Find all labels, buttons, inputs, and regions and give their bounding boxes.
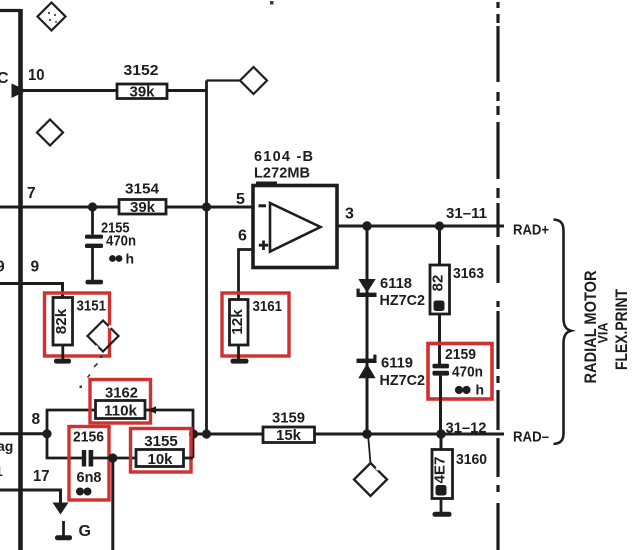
- svg-text:3163: 3163: [453, 265, 484, 282]
- junction node (3154/2155): [88, 202, 97, 211]
- wire: 2156 to 3155: [93, 457, 136, 460]
- wire: vertical net from 3152 down to RAD- net: [205, 81, 208, 435]
- resistor 3160: [432, 434, 488, 512]
- wire: vertical down from 2156 node: [111, 458, 114, 550]
- svg-text:8: 8: [32, 411, 41, 428]
- svg-text:10k: 10k: [148, 451, 174, 468]
- resistor 3152: [117, 62, 167, 101]
- capacitor 2159: [433, 346, 485, 434]
- svg-text:110k: 110k: [104, 403, 138, 420]
- svg-text:3161: 3161: [253, 298, 283, 315]
- junction node (3162/3155 corner): [189, 429, 198, 438]
- junction node (output / 3163): [435, 221, 444, 230]
- ground (3161): [231, 345, 249, 364]
- highlight box (3161): [222, 293, 289, 356]
- wire: main left bus vertical: [18, 9, 23, 550]
- resistor 3162: [96, 385, 146, 420]
- svg-text:6n8: 6n8: [77, 469, 102, 486]
- svg-text:HZ7C2: HZ7C2: [380, 292, 426, 309]
- ground (3160): [433, 512, 452, 517]
- svg-text:1: 1: [0, 463, 3, 479]
- svg-text:3154: 3154: [125, 181, 160, 198]
- svg-text:FLEX.PRINT: FLEX.PRINT: [612, 288, 631, 370]
- junction node (2159/3160): [436, 429, 445, 438]
- svg-text:31–11: 31–11: [446, 205, 487, 222]
- svg-text:3162: 3162: [105, 385, 138, 402]
- wire: op-amp pin6: [239, 250, 254, 300]
- svg-text:6119: 6119: [381, 355, 413, 372]
- wire: top-left entry: [0, 9, 21, 12]
- svg-text:4E7: 4E7: [432, 457, 449, 484]
- svg-text:ag: ag: [0, 438, 13, 454]
- svg-text:12k: 12k: [229, 309, 246, 335]
- resistor 3155: [136, 433, 184, 468]
- svg-text:3159: 3159: [272, 410, 305, 427]
- wire: node 9 to resistor 3151: [0, 284, 63, 299]
- svg-text:7: 7: [27, 185, 36, 202]
- arrowhead to ground: [53, 503, 69, 515]
- svg-text:6: 6: [238, 228, 247, 245]
- svg-text:5: 5: [236, 191, 245, 208]
- wire: node 10 to resistor 3152: [21, 89, 117, 92]
- diamond (right of 3152): [240, 67, 267, 94]
- junction node (node 8): [42, 429, 51, 438]
- wire: 3155 right lead: [184, 457, 194, 460]
- junction node (pin5 net): [202, 202, 211, 211]
- ground (2155): [86, 280, 104, 285]
- highlight box (2156): [69, 427, 109, 501]
- diamond (left, above node 7): [37, 120, 63, 146]
- highlight box (2159): [428, 344, 492, 400]
- svg-text:470n: 470n: [106, 233, 136, 250]
- resistor 3163: [430, 226, 485, 364]
- node C arrowhead: [12, 84, 28, 99]
- wire: zener column vertical: [366, 226, 369, 434]
- resistor 3161: [229, 298, 282, 345]
- svg-text:3155: 3155: [144, 433, 178, 450]
- diamond (at 3151): [88, 321, 119, 352]
- wire: 3154 to op-amp pin5: [166, 206, 253, 209]
- svg-text:h: h: [476, 382, 485, 398]
- svg-text:39k: 39k: [130, 84, 156, 101]
- svg-text:h: h: [126, 251, 135, 267]
- ground (3151): [54, 345, 71, 364]
- resistor 3151: [53, 298, 106, 346]
- junction node (vertical net): [202, 429, 211, 438]
- svg-text:39k: 39k: [130, 199, 156, 216]
- wire: stub to diamond: [207, 79, 241, 81]
- junction node (output / zeners): [362, 221, 371, 230]
- svg-text:82: 82: [430, 275, 447, 292]
- svg-text:G: G: [79, 523, 91, 540]
- svg-text:2156: 2156: [73, 429, 104, 446]
- svg-text:9: 9: [0, 259, 5, 276]
- svg-text:RAD–: RAD–: [513, 429, 549, 446]
- wire: stub to diamond below RAD-: [368, 434, 371, 463]
- brace (motor connection): [554, 220, 572, 445]
- flex print boundary (dash-dot line): [496, 2, 499, 550]
- stray scan marks: [80, 1, 274, 388]
- capacitor 2155: [85, 207, 136, 280]
- svg-text:L272MB: L272MB: [254, 166, 310, 182]
- svg-text:6118: 6118: [380, 275, 412, 292]
- svg-text:2159: 2159: [445, 346, 476, 363]
- zener diode 6119: [357, 355, 426, 390]
- wire: node 17 to ground arrow: [0, 490, 61, 503]
- svg-text:3: 3: [345, 206, 354, 223]
- wire: resistor 3152 to vertical node: [167, 89, 207, 92]
- wire: RAD- net horizontal: [194, 433, 505, 436]
- highlight box (3162): [90, 380, 151, 424]
- svg-text:6104 -B: 6104 -B: [254, 149, 313, 165]
- wire: node 8 horizontal: [0, 432, 47, 435]
- zener diode 6118: [357, 275, 426, 309]
- highlight box (3151): [45, 293, 110, 356]
- svg-text:17: 17: [33, 468, 50, 485]
- resistor 3154: [119, 181, 166, 217]
- svg-text:VIA: VIA: [595, 323, 611, 344]
- wire: 3162 right lead with arrowhead: [145, 406, 193, 458]
- svg-text:470n: 470n: [452, 364, 483, 381]
- wire: node 7 horizontal: [0, 206, 119, 209]
- diamond (below RAD- net): [354, 463, 387, 496]
- wire: node 8 down to 2156: [47, 434, 82, 458]
- op-amp 6104 -B L272MB: [253, 149, 337, 268]
- svg-text:3152: 3152: [124, 62, 159, 79]
- wire: op-amp output to RAD+: [337, 225, 504, 228]
- junction node (2156/3155): [108, 453, 117, 462]
- highlight box (3155): [131, 429, 192, 473]
- diamond (top-left, with dots): [38, 3, 66, 31]
- svg-text:HZ7C2: HZ7C2: [380, 372, 426, 389]
- ground G symbol: [55, 521, 91, 540]
- capacitor 2156: [73, 429, 104, 496]
- svg-text:9: 9: [31, 259, 40, 276]
- wire: node 8 up to 3162: [47, 410, 96, 434]
- svg-text:RAD+: RAD+: [513, 222, 549, 239]
- svg-text:C: C: [0, 70, 9, 87]
- svg-text:15k: 15k: [276, 427, 302, 444]
- svg-text:10: 10: [28, 67, 45, 84]
- svg-text:82k: 82k: [53, 308, 70, 334]
- resistor 3159: [263, 410, 315, 445]
- svg-text:3160: 3160: [456, 451, 487, 468]
- junction node (zener column): [362, 429, 371, 438]
- svg-text:3151: 3151: [77, 298, 107, 315]
